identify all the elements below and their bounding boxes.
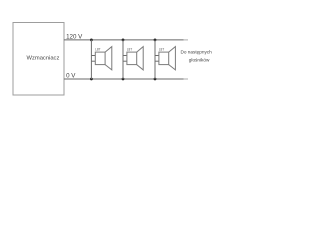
loudspeaker 1: [95, 52, 105, 65]
wire stub lower terminal, speaker 1: [91, 60, 95, 62]
wire stub upper terminal, speaker 3: [155, 55, 159, 57]
junction dot top, speaker 2: [122, 39, 125, 42]
wire: 0 V line (bottom): [64, 78, 184, 80]
junction dot bottom, speaker 1: [90, 78, 93, 81]
svg-text:0 V: 0 V: [66, 73, 76, 80]
wire: 120 V line (top): [64, 39, 184, 41]
junction dot top, speaker 1: [90, 39, 93, 42]
junction dot bottom, speaker 3: [154, 78, 157, 81]
wire vertical, speaker 1: [90, 40, 92, 79]
wire vertical, speaker 3: [154, 40, 156, 79]
wire stub upper terminal, speaker 1: [91, 55, 95, 57]
svg-text:120 V: 120 V: [66, 33, 83, 40]
wire stub lower terminal, speaker 3: [155, 60, 159, 62]
junction dot bottom, speaker 2: [122, 78, 125, 81]
svg-text:Do następnych: Do następnych: [181, 50, 213, 55]
speaker 2 group: [122, 39, 144, 81]
svg-text:Wzmacniacz: Wzmacniacz: [27, 55, 60, 61]
svg-text:L8T: L8T: [95, 48, 101, 52]
wire fade end top: [184, 39, 189, 41]
wire stub lower terminal, speaker 2: [123, 60, 127, 62]
loudspeaker 3: [159, 52, 169, 65]
amplifier box: [13, 23, 64, 96]
wire vertical, speaker 2: [122, 40, 124, 79]
junction dot top, speaker 3: [154, 39, 157, 42]
wire fade end bottom: [184, 78, 189, 80]
svg-text:L8T: L8T: [127, 48, 133, 52]
speaker 1 group: [90, 39, 112, 81]
loudspeaker 2: [127, 52, 137, 65]
svg-text:L8T: L8T: [159, 48, 165, 52]
svg-text:głośników: głośników: [189, 57, 210, 62]
speaker 3 group: [154, 39, 176, 81]
wire stub upper terminal, speaker 2: [123, 55, 127, 57]
